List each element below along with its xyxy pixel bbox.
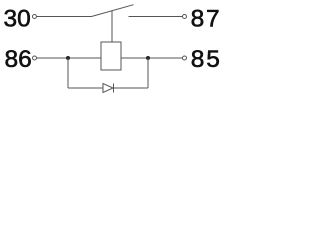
wire 30 to switch pivot: [37, 16, 92, 18]
diode D1 anode triangle: [103, 84, 113, 93]
terminal pin 86: [33, 56, 37, 60]
terminal pin 30: [33, 15, 37, 19]
wire diode branch bottom right: [114, 87, 149, 89]
terminal pin 87: [183, 15, 187, 19]
wire diode branch right drop: [147, 58, 149, 88]
svg-text:30: 30: [4, 6, 31, 33]
node junction left: [66, 56, 70, 60]
svg-text:86: 86: [5, 46, 32, 73]
wire coil to 85: [121, 57, 183, 59]
diode D1 cathode bar: [113, 84, 115, 93]
armature link wire: [111, 11, 113, 42]
node junction right: [146, 56, 150, 60]
wire diode branch left drop: [67, 58, 69, 88]
relay coil K1: [101, 42, 121, 70]
svg-text:85: 85: [191, 46, 222, 73]
svg-text:87: 87: [191, 6, 222, 33]
wire contact to 87: [129, 16, 183, 18]
wire 86 to coil: [37, 57, 102, 59]
switch arm SW1 (open contact): [92, 5, 134, 17]
terminal pin 85: [183, 56, 187, 60]
wire diode branch bottom left: [68, 87, 103, 89]
